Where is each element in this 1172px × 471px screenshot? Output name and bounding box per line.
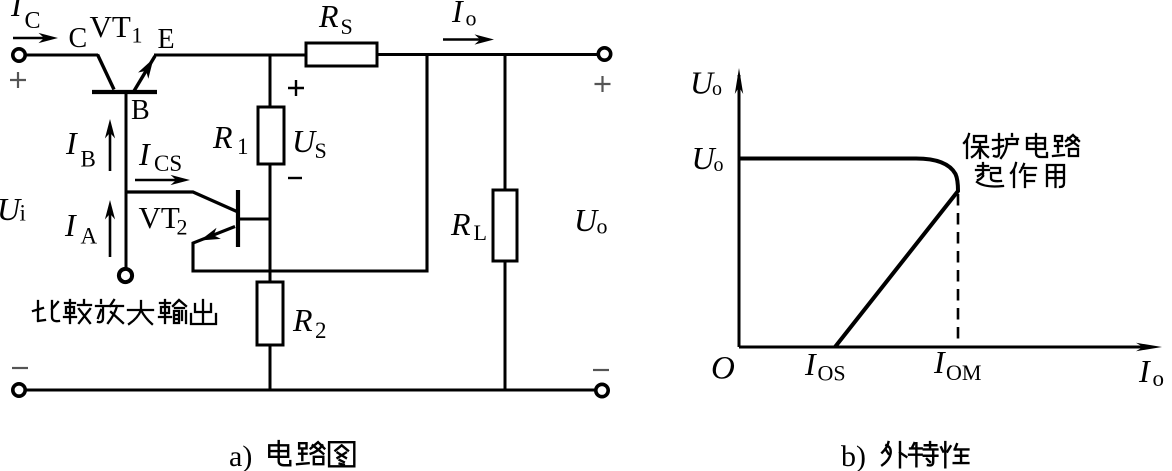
svg-text:S: S bbox=[315, 138, 327, 163]
svg-text:R: R bbox=[450, 206, 471, 242]
svg-text:VT: VT bbox=[90, 9, 131, 44]
svg-text:a): a) bbox=[229, 440, 252, 471]
svg-text:VT: VT bbox=[139, 200, 180, 235]
svg-text:E: E bbox=[158, 24, 175, 55]
svg-text:C: C bbox=[69, 23, 88, 54]
svg-text:B: B bbox=[131, 95, 150, 126]
svg-text:i: i bbox=[20, 201, 26, 226]
svg-text:CS: CS bbox=[154, 151, 182, 176]
svg-text:I: I bbox=[65, 125, 78, 161]
svg-text:I: I bbox=[1138, 353, 1151, 389]
svg-text:C: C bbox=[25, 8, 41, 34]
svg-text:1: 1 bbox=[132, 23, 143, 48]
svg-text:O: O bbox=[711, 351, 735, 387]
svg-text:b): b) bbox=[841, 440, 866, 471]
svg-text:OM: OM bbox=[946, 360, 981, 385]
svg-text:S: S bbox=[341, 14, 353, 39]
svg-text:L: L bbox=[474, 220, 487, 245]
svg-text:I: I bbox=[451, 0, 464, 29]
svg-text:A: A bbox=[81, 224, 98, 249]
svg-text:o: o bbox=[466, 6, 477, 31]
svg-text:o: o bbox=[714, 154, 724, 176]
svg-text:U: U bbox=[574, 202, 599, 238]
svg-text:o: o bbox=[597, 214, 608, 239]
svg-text:2: 2 bbox=[315, 318, 327, 343]
svg-text:I: I bbox=[138, 136, 151, 172]
svg-text:o: o bbox=[1153, 366, 1165, 391]
svg-text:R: R bbox=[318, 0, 339, 34]
svg-text:I: I bbox=[10, 0, 23, 23]
svg-text:U: U bbox=[292, 123, 317, 159]
svg-text:I: I bbox=[804, 346, 817, 382]
svg-text:I: I bbox=[933, 344, 946, 380]
svg-text:1: 1 bbox=[237, 134, 249, 159]
svg-text:R: R bbox=[212, 119, 233, 155]
svg-text:B: B bbox=[81, 147, 96, 172]
svg-text:OS: OS bbox=[818, 361, 846, 386]
svg-text:2: 2 bbox=[177, 215, 188, 240]
svg-text:I: I bbox=[64, 207, 77, 243]
svg-text:o: o bbox=[712, 78, 722, 100]
svg-text:R: R bbox=[292, 302, 313, 338]
